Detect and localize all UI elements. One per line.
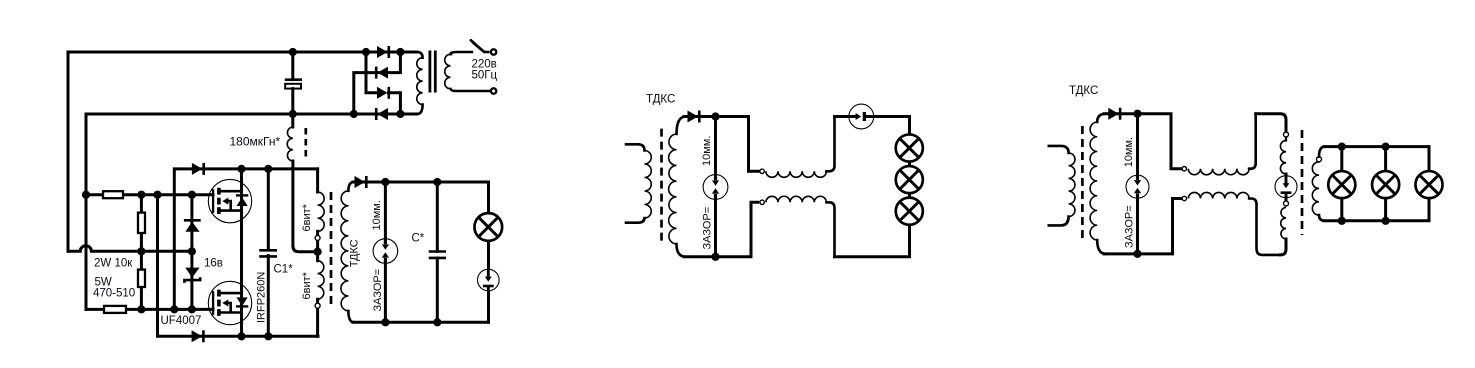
diode VD9 HV <box>355 176 367 188</box>
svg-text:2W 10к: 2W 10к <box>94 258 133 270</box>
label 6вит* a <box>301 203 313 231</box>
label 470-510 <box>93 288 135 300</box>
svg-text:ТДКС: ТДКС <box>646 94 675 106</box>
switch terminals 220v <box>491 49 496 93</box>
wire lamp top rail middle <box>835 117 910 136</box>
wire R-chain vertical <box>140 195 143 310</box>
svg-text:50Гц: 50Гц <box>472 69 498 81</box>
wire lamp top rail right <box>1324 147 1429 170</box>
wire Q2 gate rail <box>86 308 213 311</box>
wire lamp column middle <box>908 133 911 226</box>
inductor L1 180uH <box>287 114 317 252</box>
wire C1 top lead <box>267 169 270 250</box>
svg-text:ТДКС: ТДКС <box>1069 85 1098 97</box>
svg-text:ЗАЗОР=: ЗАЗОР= <box>702 207 714 250</box>
junction lamp rail dots <box>1338 143 1390 225</box>
label ТДКС middle <box>646 94 675 106</box>
transformer T3 primary <box>626 144 651 222</box>
lamp HL7 <box>1415 171 1442 198</box>
transformer T4 core <box>1081 126 1084 240</box>
label ЗАЗОР= middle <box>702 207 714 250</box>
resistor R1 2W 10k <box>103 191 123 198</box>
label 50Гц <box>472 69 498 81</box>
wire spark gap column <box>384 182 387 322</box>
coupling coil Ld bottom <box>1182 192 1280 254</box>
transistor Q2 IRFP260N lower <box>208 281 251 324</box>
resistor R2 divider upper <box>138 213 145 233</box>
capacitor mains top lead <box>291 52 294 79</box>
capacitor C* plates <box>429 252 446 258</box>
wire spark column right <box>1136 114 1139 254</box>
transformer T1 secondary <box>445 52 490 91</box>
diode VD8 UF4007 bottom <box>192 330 204 342</box>
label ЗАЗОР= right <box>1124 205 1136 248</box>
junction diode out <box>711 112 719 120</box>
svg-text:10мм.: 10мм. <box>1123 137 1135 167</box>
junction bridge dots <box>350 48 405 118</box>
wire C* column <box>436 182 439 322</box>
diode VD3 bridge row3 <box>377 87 389 99</box>
wire HV top rail <box>353 181 489 184</box>
label ТДКС right <box>1069 85 1098 97</box>
label 6вит* b <box>301 271 313 299</box>
svg-text:IRFP260N: IRFP260N <box>256 272 268 323</box>
label IRFP260N <box>256 272 268 323</box>
svg-text:16в: 16в <box>204 258 223 270</box>
wire HV right column <box>487 182 490 322</box>
wire C vertical top-diode feed <box>174 169 317 310</box>
diode VD7 UF4007 top <box>192 163 204 175</box>
coupling coil Lc top <box>1182 114 1256 175</box>
svg-text:6вит*: 6вит* <box>301 203 313 231</box>
diode VD4 bridge row4 <box>376 108 388 120</box>
svg-text:C*: C* <box>412 233 425 245</box>
wire top rail to T5 <box>1256 114 1286 131</box>
wire C1 bottom lead <box>267 256 270 337</box>
capacitor C1 plates <box>259 250 277 256</box>
junction diode out right <box>1133 110 1141 118</box>
label 180мкГн* <box>230 135 281 149</box>
wire half-bridge mid line <box>240 169 243 336</box>
transformer T4 secondary <box>1090 114 1106 254</box>
capacitor mains bottom lead <box>291 89 294 114</box>
transformer T5 primary lower <box>1280 198 1288 255</box>
transistor Q1 IRFP260N upper <box>208 179 251 222</box>
zener VD6 16v <box>184 268 200 283</box>
wire lamp bottom rail right <box>1324 199 1429 221</box>
label ТДКС rotated <box>349 239 361 267</box>
junction middle-rail dots <box>137 247 196 255</box>
label 10мм. right <box>1123 137 1135 167</box>
diode VD5 gate clamp up <box>184 220 201 231</box>
arrester FV4 series <box>849 104 874 129</box>
junction Q2-gate-rail dots <box>137 305 196 313</box>
lamp HL1 <box>474 213 502 241</box>
transformer T3 core <box>660 129 663 243</box>
coupling coil La top <box>760 117 835 178</box>
capacitor mains plates <box>285 80 302 89</box>
svg-text:10мм.: 10мм. <box>371 200 383 230</box>
label 5W <box>95 277 112 289</box>
winding b polarity dot <box>315 303 320 308</box>
label ЗАЗОР= <box>372 269 384 312</box>
lamp HL4 <box>896 198 923 225</box>
junction output dots <box>381 178 441 327</box>
wire lamp bottom rail middle <box>835 225 910 257</box>
label C* <box>412 233 425 245</box>
wire spark column middle <box>714 117 717 257</box>
diode VD10 middle <box>688 111 700 123</box>
spark gap FV3 <box>703 175 728 200</box>
transformer T2 primary winding a <box>318 169 325 249</box>
svg-text:470-510: 470-510 <box>93 288 135 300</box>
transformer T5 primary upper <box>1280 132 1288 176</box>
spark gap FV1 10mm <box>373 239 398 264</box>
lamp HL5 <box>1328 171 1355 198</box>
junction gate-rail dots <box>82 191 196 199</box>
wire T3 sec bottom rail <box>684 202 758 256</box>
lamp HL6 <box>1372 171 1399 198</box>
transformer T3 secondary <box>669 117 686 257</box>
label 220в <box>472 59 497 71</box>
label 10мм. <box>371 200 383 230</box>
diode VD11 right <box>1108 108 1120 120</box>
resistor R3 divider lower <box>138 270 145 287</box>
svg-text:UF4007: UF4007 <box>161 315 202 327</box>
wire HV bottom rail <box>353 321 489 324</box>
wire lamp2 taps <box>1384 147 1387 221</box>
diode VD2 bridge row2 <box>376 67 388 79</box>
label C1* <box>274 264 294 276</box>
lamp HL2 <box>896 134 923 161</box>
arrester FV6 series <box>1275 176 1297 198</box>
inductor L1 core <box>304 128 307 161</box>
svg-text:ТДКС: ТДКС <box>349 239 361 267</box>
transformer T1 core <box>430 51 435 93</box>
wire T3 sec top rail <box>684 117 760 172</box>
junction half-bridge dots <box>237 165 272 341</box>
svg-text:180мкГн*: 180мкГн* <box>230 135 281 149</box>
wire bridge row3 <box>389 93 401 114</box>
transformer T4 primary <box>1049 146 1075 226</box>
label UF4007 <box>161 315 202 327</box>
wire Q1 gate rail <box>86 193 213 196</box>
svg-text:ЗАЗОР=: ЗАЗОР= <box>1124 205 1136 248</box>
transformer T5 secondary <box>1312 147 1325 221</box>
resistor R4 5W 470-510 <box>104 306 126 313</box>
label 10мм. middle <box>701 136 713 166</box>
label 2W 10к <box>94 258 133 270</box>
wire lamp1 taps <box>1340 147 1343 221</box>
wire gate-drive middle rail with hop <box>68 246 192 252</box>
junction T2 center tap <box>314 248 322 256</box>
wire B vertical to bottom diode <box>158 195 319 337</box>
switch SA1 <box>471 40 490 52</box>
transformer T1 primary <box>417 52 423 114</box>
lamp HL3 <box>896 166 923 193</box>
transformer T2 secondary <box>341 182 354 322</box>
arrester FV2 <box>478 269 500 291</box>
svg-text:ЗАЗОР=: ЗАЗОР= <box>372 269 384 312</box>
svg-text:C1*: C1* <box>274 264 294 276</box>
wire inner rail <box>86 114 417 309</box>
junction bottom middle <box>711 253 719 261</box>
wire top-left rail <box>68 52 417 251</box>
diode VD1 bridge row1 <box>377 46 389 58</box>
wire bridge left bus <box>366 52 377 93</box>
wire top rail right <box>1104 114 1182 169</box>
svg-text:6вит*: 6вит* <box>301 271 313 299</box>
junction bottom right <box>1133 250 1141 258</box>
junction cap dots <box>289 48 297 118</box>
coupling coil Lb bottom <box>760 196 835 257</box>
spark gap FV5 <box>1126 175 1149 198</box>
transformer T2 primary winding b <box>318 254 324 336</box>
svg-text:10мм.: 10мм. <box>701 136 713 166</box>
transformer T5 core <box>1301 130 1304 235</box>
transformer T2 core <box>330 192 333 309</box>
wire bottom rail right <box>1104 199 1182 254</box>
wire zener chain vertical <box>190 195 193 310</box>
wire bridge row2 <box>354 52 401 114</box>
label 16в <box>204 258 223 270</box>
winding a polarity dot <box>315 235 320 240</box>
